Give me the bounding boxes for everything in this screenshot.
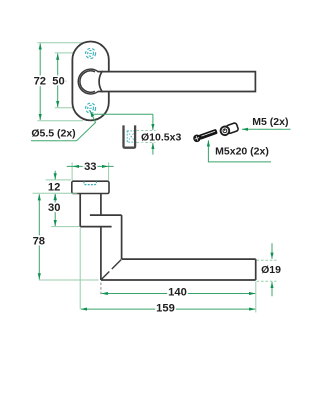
33 extension left — [71, 162, 73, 180]
svg-text:Ø10.5x3: Ø10.5x3 — [141, 132, 181, 144]
svg-text:Ø19: Ø19 — [261, 264, 281, 276]
bar top edge stub — [98, 71, 103, 73]
spindle recess (dashed) — [84, 181, 97, 184]
svg-text:33: 33 — [84, 161, 96, 173]
extension line top hole (50 dim) — [55, 52, 87, 54]
handle neck right line — [100, 194, 102, 216]
78 extension bottom — [39, 279, 99, 281]
dimension 78 line — [38, 194, 40, 279]
33 extension right — [108, 162, 110, 180]
miter seam lower — [101, 272, 109, 280]
U profile section — [124, 125, 136, 147]
159 extension left — [79, 228, 81, 309]
neck collar outer arc — [78, 69, 98, 94]
12 extension top — [46, 179, 71, 181]
dimension 159 line — [81, 308, 255, 310]
O19 dashed extension bottom — [257, 280, 277, 282]
dimension 33 line — [67, 165, 114, 167]
square spindle section (dashed) — [127, 131, 135, 142]
30 extension bottom — [51, 226, 79, 228]
dimension 72 line — [39, 43, 41, 120]
O10.5 dashed extension top — [137, 130, 156, 132]
svg-text:Ø5.5 (2x): Ø5.5 (2x) — [31, 128, 75, 140]
extension line rose bottom (72 dim) — [37, 120, 83, 122]
dimension 30 line — [54, 194, 56, 226]
handle neck left line — [79, 194, 81, 227]
O19 arrow top — [271, 243, 273, 258]
O10.5 dashed extension bottom — [137, 142, 156, 144]
shared extension rose bottom — [33, 192, 78, 194]
svg-text:12: 12 — [48, 182, 60, 194]
12 arrow top — [54, 171, 56, 180]
grip bottom edge — [101, 279, 256, 281]
miter seam upper — [112, 260, 121, 269]
label O5.5 (2x) leader arrow — [77, 111, 96, 141]
extension line rose top (72 dim) — [37, 42, 96, 44]
12 arrow bottom — [54, 194, 56, 200]
svg-text:50: 50 — [52, 75, 64, 87]
center tick left of rose — [63, 80, 66, 82]
screw M5x20 — [192, 128, 218, 144]
dimension 50 line — [57, 54, 59, 108]
screw hole bottom (dashed) — [86, 103, 96, 113]
grip left edge — [100, 227, 102, 280]
right extension — [255, 282, 257, 313]
leader line hole to O10.5 dim — [92, 113, 153, 115]
neck collar inner arc — [80, 71, 95, 92]
grip top edge — [122, 258, 256, 260]
crank bottom edge — [80, 226, 111, 228]
rose side rectangle — [72, 181, 109, 193]
dimension 140 line — [102, 293, 256, 295]
crank top edge — [90, 214, 122, 216]
extension line bottom hole (50 dim) — [55, 107, 86, 109]
O19 arrow bottom — [271, 282, 273, 296]
O19 dashed extension top — [257, 259, 277, 261]
grip end edge — [255, 259, 257, 280]
sleeve nut M5 — [219, 122, 238, 136]
svg-text:72: 72 — [34, 75, 46, 87]
svg-text:30: 30 — [48, 202, 60, 214]
svg-text:M5 (2x): M5 (2x) — [252, 116, 288, 128]
svg-text:159: 159 — [156, 303, 175, 315]
rose plate (stadium) — [72, 42, 108, 121]
label O5.5 (2x) leader underline — [31, 140, 77, 142]
140 extension left (dashed gray) — [100, 283, 102, 297]
bar bottom edge stub — [98, 91, 103, 93]
O10.5 arrow bottom — [152, 143, 154, 155]
svg-text:78: 78 — [33, 235, 45, 247]
label M5 (2x) leader — [242, 128, 291, 130]
label M5x20 (2x) leader — [208, 140, 271, 162]
lever bar (top view) — [99, 72, 255, 92]
O10.5 arrow top — [152, 114, 154, 130]
svg-text:M5x20 (2x): M5x20 (2x) — [215, 146, 269, 158]
svg-text:140: 140 — [168, 287, 187, 299]
crank right edge — [121, 215, 123, 259]
screw hole top (dashed) — [86, 48, 96, 58]
